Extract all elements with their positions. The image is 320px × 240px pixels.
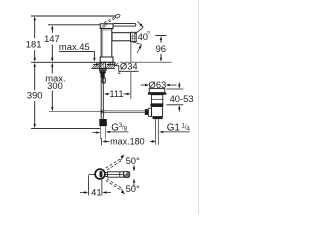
svg-text:181: 181 bbox=[26, 38, 42, 49]
deck surface line bbox=[31, 61, 115, 63]
arc arrow at lower dashed lever bbox=[121, 189, 124, 192]
faucet base bbox=[100, 57, 113, 62]
waste locknut bbox=[150, 104, 163, 107]
top view lever bar bbox=[108, 172, 124, 177]
dim max.180 left arrow bbox=[105, 140, 110, 142]
waste plug cap bbox=[149, 89, 165, 93]
top view lever tip grip bbox=[124, 172, 130, 178]
deck hatching right of shank bbox=[106, 63, 119, 69]
aerator / mousseur bbox=[131, 32, 137, 41]
dim 390 bottom tick at supply end level bbox=[31, 127, 100, 129]
top view lever swung down 50deg (dashed) bbox=[106, 180, 121, 190]
waste upper body bbox=[151, 95, 162, 104]
top view lever divider bbox=[119, 172, 121, 177]
svg-text:°: ° bbox=[147, 30, 150, 39]
dim 390 vertical line with arrows bbox=[34, 64, 36, 90]
waste bottom cap bbox=[153, 117, 163, 120]
svg-text:300: 300 bbox=[47, 80, 63, 91]
stub left arrow bbox=[93, 132, 97, 134]
dim max.300 bottom tick at rod level bbox=[49, 111, 101, 113]
horizontal pop-up linkage rod to waste bbox=[104, 110, 145, 112]
junction cross on pipe bbox=[100, 110, 104, 114]
dim max.180 left extension bar bbox=[101, 138, 103, 145]
svg-text:50°: 50° bbox=[126, 183, 140, 194]
dim 41 arrows bbox=[80, 192, 84, 194]
dim 40-53 bottom tick bbox=[166, 104, 183, 106]
supply connector nut bbox=[99, 119, 107, 126]
waste flange bbox=[148, 93, 167, 95]
svg-text:147: 147 bbox=[44, 33, 60, 44]
svg-text:max.45: max.45 bbox=[59, 41, 90, 52]
supply pipe bbox=[100, 78, 102, 119]
dim max.300 vertical line with arrows bbox=[51, 64, 53, 73]
dim 147 extension tick at cartridge-top level bbox=[48, 24, 100, 26]
dim 111 right extension line from aerator bbox=[130, 42, 132, 61]
dim 40-53 arrows bbox=[178, 82, 180, 85]
spray angle lower ray with arc arrow bbox=[131, 41, 142, 44]
lower 50deg arc arrow at lever bbox=[133, 183, 135, 186]
svg-text:111: 111 bbox=[109, 88, 123, 99]
deck edge step profile bbox=[115, 62, 121, 73]
dim 181 vertical line with arrows bbox=[34, 18, 36, 38]
svg-text:Ø34: Ø34 bbox=[120, 60, 138, 71]
svg-text:96: 96 bbox=[156, 43, 166, 54]
dim 181 extension tick at lever-top level bbox=[31, 15, 116, 17]
dim max.180 right arrow bbox=[150, 140, 153, 142]
top view rear stub line bbox=[89, 173, 95, 175]
dia34 shank arrows at deck level bbox=[93, 64, 96, 66]
svg-text:41: 41 bbox=[91, 187, 101, 198]
dim dia63 line with arrows bbox=[141, 84, 146, 86]
svg-text:390: 390 bbox=[27, 90, 43, 101]
mounting nut bbox=[99, 68, 107, 71]
upper 50deg arc arrow at lever bbox=[133, 165, 135, 169]
dim 111 line with arrows bbox=[106, 93, 110, 95]
top view body circle bbox=[95, 169, 105, 179]
pop-up rod knob bbox=[102, 78, 105, 83]
supply stub G3/8 bbox=[100, 126, 102, 139]
threaded shank through deck bbox=[100, 62, 105, 68]
svg-text:40-53: 40-53 bbox=[170, 93, 194, 104]
waste lower body bbox=[152, 107, 163, 117]
faucet body column bbox=[101, 29, 112, 58]
dim 41 right extension line bbox=[101, 180, 103, 196]
top view lever swung up 50deg (dashed) bbox=[107, 161, 122, 170]
dim 96 top tick at aerator level bbox=[155, 35, 166, 37]
washer cone bbox=[100, 71, 106, 73]
dim 41 left extension line bbox=[88, 175, 90, 195]
rod clevis on waste bbox=[145, 109, 149, 115]
dim 147 vertical line with arrows bbox=[51, 27, 53, 33]
faucet spout bbox=[112, 33, 131, 41]
shank lower part bbox=[101, 74, 105, 78]
deck-level extension line to the right bbox=[120, 61, 172, 63]
faucet lever (closed position) bbox=[113, 24, 136, 27]
spray angle upper ray with arc arrow bbox=[135, 27, 144, 34]
svg-text:max.180: max.180 bbox=[110, 137, 145, 147]
page column border bbox=[198, 0, 200, 214]
arc arrow at upper dashed lever bbox=[120, 157, 123, 160]
top view cartridge slot bbox=[100, 171, 103, 177]
dim 96 vertical line with arrows bbox=[160, 40, 162, 43]
faucet lever raised (dashed) bbox=[105, 18, 116, 24]
waste tailpipe G1 1/4 bbox=[155, 119, 157, 145]
deck underside line bbox=[91, 67, 114, 69]
dim 40-53 top tick bbox=[166, 88, 183, 90]
svg-text:50°: 50° bbox=[126, 155, 140, 166]
faucet cartridge cap bbox=[100, 24, 113, 29]
deck hatching left of shank bbox=[92, 63, 105, 69]
top view lever neck bbox=[105, 172, 108, 176]
